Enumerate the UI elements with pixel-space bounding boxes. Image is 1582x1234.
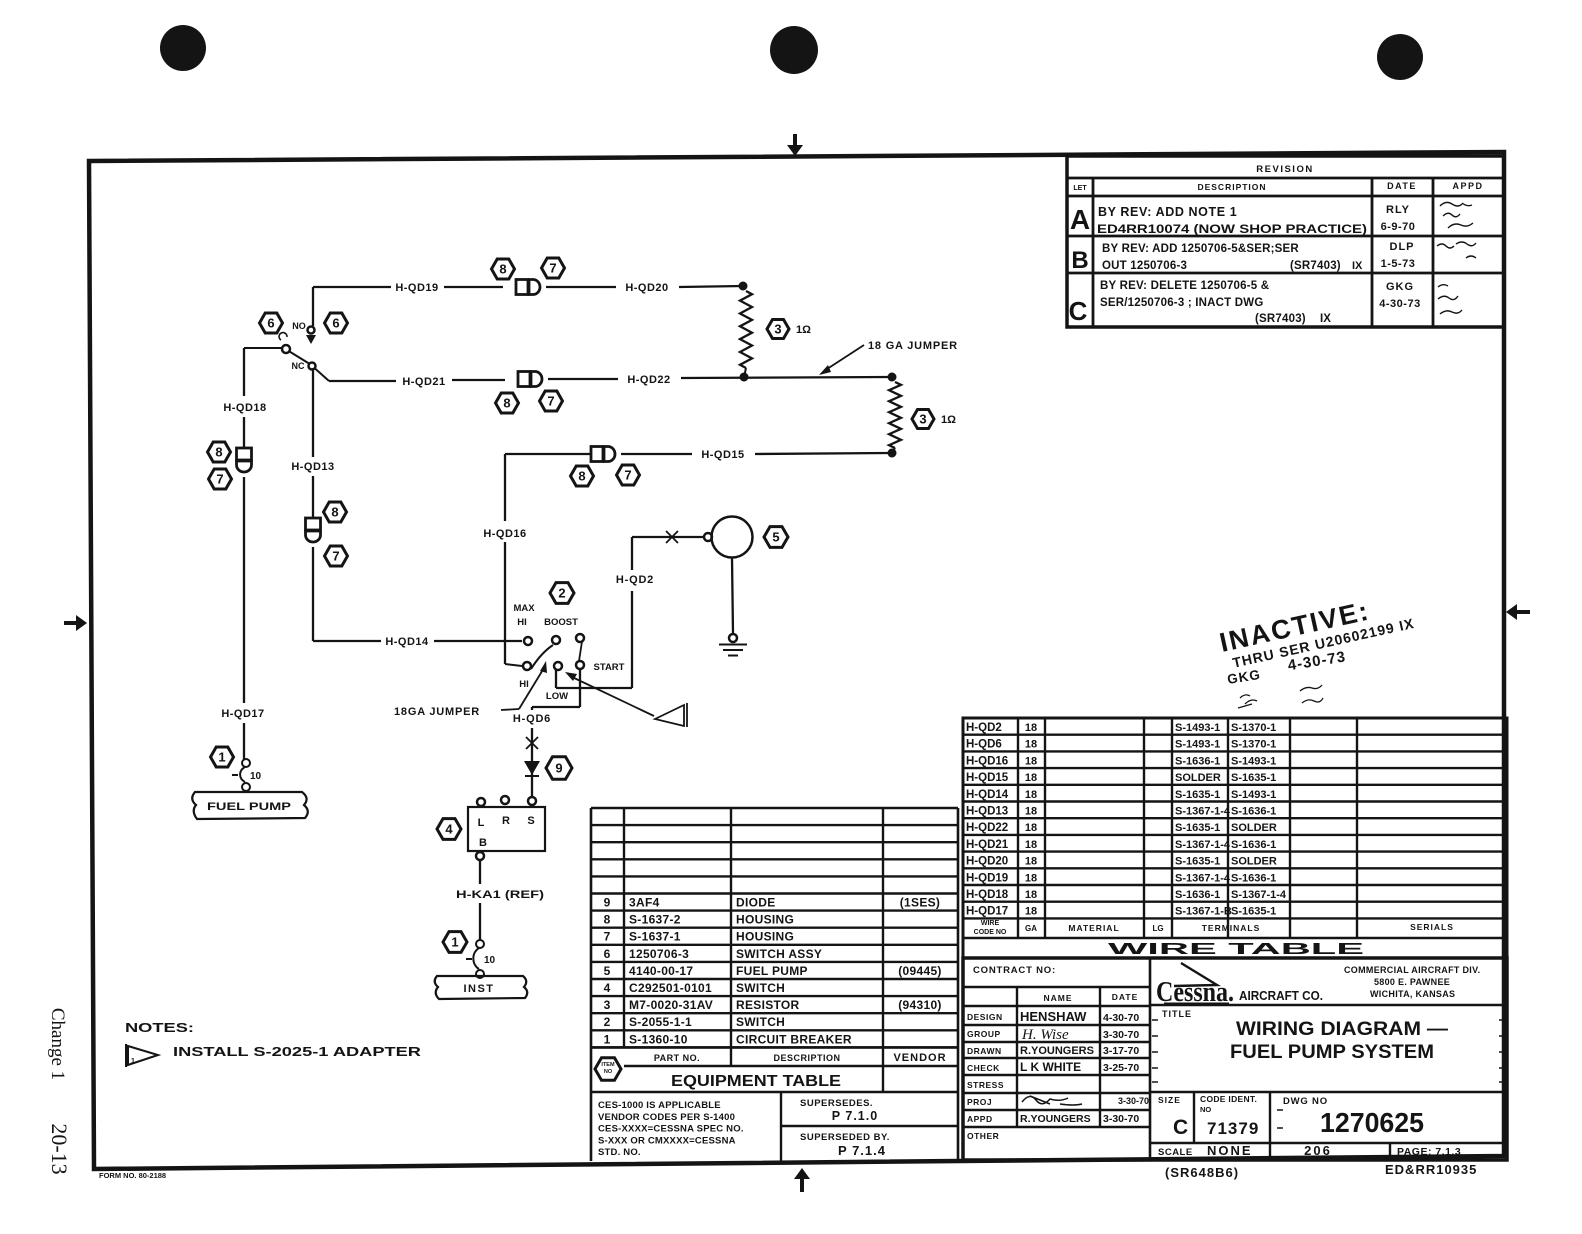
svg-text:STD. NO.: STD. NO.: [598, 1147, 641, 1158]
svg-text:SUPERSEDED BY.: SUPERSEDED BY.: [800, 1132, 890, 1143]
svg-text:1250706-3: 1250706-3: [629, 947, 689, 961]
svg-text:CONTRACT NO:: CONTRACT NO:: [973, 965, 1056, 976]
svg-text:REVISION: REVISION: [1256, 164, 1313, 175]
svg-text:C292501-0101: C292501-0101: [629, 981, 712, 995]
svg-text:BY REV: DELETE 1250706-5 &: BY REV: DELETE 1250706-5 &: [1100, 280, 1269, 292]
svg-text:HI: HI: [517, 617, 527, 628]
svg-text:SOLDER: SOLDER: [1231, 856, 1277, 868]
svg-text:S-1367-1-4: S-1367-1-4: [1175, 806, 1231, 818]
svg-text:6-9-70: 6-9-70: [1381, 221, 1416, 233]
svg-text:18GA JUMPER: 18GA JUMPER: [394, 706, 480, 718]
svg-text:DLP: DLP: [1390, 241, 1415, 253]
svg-text:H-QD22: H-QD22: [966, 822, 1008, 834]
svg-text:A: A: [1070, 204, 1090, 235]
svg-text:H-QD14: H-QD14: [385, 636, 429, 648]
svg-text:206: 206: [1304, 1143, 1332, 1158]
svg-text:SWITCH: SWITCH: [736, 1015, 785, 1029]
svg-text:4-30-73: 4-30-73: [1379, 298, 1420, 310]
svg-text:BY REV: ADD NOTE 1: BY REV: ADD NOTE 1: [1098, 205, 1237, 219]
svg-text:S-1635-1: S-1635-1: [1231, 772, 1276, 784]
svg-text:H-QD2: H-QD2: [616, 574, 654, 586]
svg-text:PAGE: 7.1.3: PAGE: 7.1.3: [1397, 1146, 1461, 1158]
svg-text:LET: LET: [1073, 185, 1087, 192]
svg-text:18: 18: [1025, 789, 1037, 801]
svg-text:NO: NO: [604, 1069, 613, 1075]
svg-text:S-1636-1: S-1636-1: [1175, 889, 1220, 901]
svg-text:HOUSING: HOUSING: [736, 913, 794, 927]
svg-text:SIZE: SIZE: [1158, 1095, 1181, 1105]
svg-text:18: 18: [1025, 906, 1037, 918]
svg-text:H-QD6: H-QD6: [513, 713, 551, 725]
svg-text:18: 18: [1025, 872, 1037, 884]
svg-text:R.YOUNGERS: R.YOUNGERS: [1020, 1113, 1091, 1125]
svg-text:3: 3: [604, 998, 611, 1012]
svg-text:S-1637-2: S-1637-2: [629, 913, 681, 927]
svg-text:Change 1: Change 1: [47, 1008, 68, 1080]
svg-text:7: 7: [604, 930, 611, 944]
svg-text:(SR7403): (SR7403): [1255, 313, 1306, 325]
svg-text:S-1367-1-4: S-1367-1-4: [1231, 889, 1287, 901]
svg-text:H-QD14: H-QD14: [966, 789, 1009, 801]
svg-text:H-QD21: H-QD21: [402, 376, 445, 388]
svg-text:P 7.1.4: P 7.1.4: [838, 1143, 886, 1158]
svg-text:NC: NC: [292, 361, 305, 371]
svg-text:1: 1: [451, 935, 458, 950]
svg-text:18: 18: [1025, 856, 1037, 868]
svg-text:EQUIPMENT TABLE: EQUIPMENT TABLE: [671, 1073, 841, 1090]
svg-text:BY REV: ADD 1250706-5&SER;SER: BY REV: ADD 1250706-5&SER;SER: [1102, 243, 1299, 255]
svg-text:H-QD2: H-QD2: [966, 722, 1002, 734]
svg-text:1: 1: [218, 750, 225, 765]
svg-text:1: 1: [604, 1032, 611, 1046]
svg-text:3-25-70: 3-25-70: [1103, 1062, 1139, 1074]
svg-text:3-17-70: 3-17-70: [1103, 1045, 1139, 1057]
svg-text:S: S: [527, 815, 534, 827]
svg-text:H-QD6: H-QD6: [966, 739, 1002, 751]
svg-text:(1SES): (1SES): [900, 896, 940, 910]
svg-text:H-QD19: H-QD19: [966, 872, 1008, 884]
svg-text:PROJ: PROJ: [967, 1097, 992, 1107]
svg-text:1Ω: 1Ω: [796, 324, 811, 336]
svg-text:S-1367-1-B: S-1367-1-B: [1175, 906, 1232, 918]
svg-text:5: 5: [772, 530, 779, 545]
svg-text:S-1367-1-4: S-1367-1-4: [1175, 839, 1231, 851]
svg-text:6: 6: [604, 947, 611, 961]
svg-text:3-30-70: 3-30-70: [1118, 1096, 1149, 1106]
svg-text:DESCRIPTION: DESCRIPTION: [773, 1053, 840, 1063]
svg-text:DIODE: DIODE: [736, 896, 776, 910]
svg-text:H-QD18: H-QD18: [223, 402, 266, 414]
svg-text:CIRCUIT BREAKER: CIRCUIT BREAKER: [736, 1032, 852, 1046]
svg-text:H-QD17: H-QD17: [966, 906, 1008, 918]
svg-text:4140-00-17: 4140-00-17: [629, 964, 693, 978]
svg-text:H-QD20: H-QD20: [625, 282, 668, 294]
svg-text:C: C: [1173, 1116, 1188, 1139]
svg-text:8: 8: [604, 913, 611, 927]
svg-text:S-1635-1: S-1635-1: [1175, 789, 1220, 801]
svg-text:IX: IX: [1352, 260, 1363, 272]
svg-text:S-1635-1: S-1635-1: [1175, 822, 1220, 834]
svg-text:TITLE: TITLE: [1162, 1009, 1192, 1019]
svg-text:L K WHITE: L K WHITE: [1020, 1060, 1081, 1074]
svg-text:FUEL PUMP: FUEL PUMP: [207, 801, 291, 813]
svg-text:FUEL PUMP SYSTEM: FUEL PUMP SYSTEM: [1230, 1042, 1434, 1063]
svg-text:6: 6: [267, 316, 274, 331]
svg-text:8: 8: [578, 469, 585, 484]
svg-text:SWITCH: SWITCH: [736, 981, 785, 995]
svg-text:HOUSING: HOUSING: [736, 930, 794, 944]
svg-text:S-1360-10: S-1360-10: [629, 1032, 688, 1046]
svg-text:S-2055-1-1: S-2055-1-1: [629, 1015, 692, 1029]
svg-text:7: 7: [624, 468, 631, 483]
svg-text:COMMERCIAL AIRCRAFT DIV.: COMMERCIAL AIRCRAFT DIV.: [1344, 965, 1480, 975]
svg-text:S-1636-1: S-1636-1: [1231, 806, 1276, 818]
svg-text:SER/1250706-3 ; INACT DWG: SER/1250706-3 ; INACT DWG: [1100, 297, 1264, 309]
svg-text:DATE: DATE: [1112, 992, 1139, 1002]
svg-text:INST: INST: [463, 983, 494, 995]
svg-text:SCALE: SCALE: [1158, 1147, 1193, 1158]
svg-text:18: 18: [1025, 889, 1037, 901]
svg-text:(SR648B6): (SR648B6): [1165, 1165, 1239, 1180]
svg-text:H-QD19: H-QD19: [395, 282, 438, 294]
svg-text:DESIGN: DESIGN: [967, 1012, 1003, 1022]
svg-text:OTHER: OTHER: [967, 1131, 999, 1141]
svg-text:7: 7: [547, 394, 554, 409]
svg-text:STRESS: STRESS: [967, 1080, 1004, 1090]
svg-text:S-1635-1: S-1635-1: [1231, 906, 1276, 918]
svg-text:SOLDER: SOLDER: [1231, 822, 1277, 834]
svg-text:18: 18: [1025, 839, 1037, 851]
svg-text:H-QD22: H-QD22: [627, 374, 670, 386]
svg-text:1.: 1.: [131, 1058, 137, 1065]
svg-text:RLY: RLY: [1386, 204, 1410, 216]
svg-text:3-30-70: 3-30-70: [1103, 1113, 1139, 1125]
svg-text:OUT 1250706-3: OUT 1250706-3: [1102, 260, 1187, 272]
svg-text:9: 9: [555, 761, 562, 776]
svg-text:P 7.1.0: P 7.1.0: [832, 1109, 878, 1123]
svg-text:BOOST: BOOST: [544, 617, 578, 628]
svg-text:18 GA JUMPER: 18 GA JUMPER: [868, 340, 958, 352]
svg-text:SWITCH ASSY: SWITCH ASSY: [736, 947, 822, 961]
svg-text:GKG: GKG: [1386, 281, 1414, 293]
svg-text:B: B: [479, 837, 487, 849]
svg-text:IX: IX: [1320, 313, 1331, 325]
svg-text:S-XXX OR CMXXXX=CESSNA: S-XXX OR CMXXXX=CESSNA: [598, 1135, 736, 1146]
svg-text:(94310): (94310): [898, 998, 941, 1012]
svg-text:18: 18: [1025, 806, 1037, 818]
svg-text:DESCRIPTION: DESCRIPTION: [1197, 182, 1266, 192]
svg-text:NOTES:: NOTES:: [125, 1021, 194, 1035]
svg-text:DATE: DATE: [1387, 181, 1417, 191]
svg-text:20-13: 20-13: [47, 1123, 72, 1174]
svg-text:5800 E. PAWNEE: 5800 E. PAWNEE: [1374, 977, 1450, 987]
svg-text:DWG NO: DWG NO: [1283, 1096, 1328, 1107]
svg-text:5: 5: [604, 964, 611, 978]
svg-text:S-1367-1-4: S-1367-1-4: [1175, 872, 1231, 884]
svg-text:HENSHAW: HENSHAW: [1020, 1009, 1087, 1024]
svg-text:H-QD21: H-QD21: [966, 839, 1009, 851]
svg-text:S-1370-1: S-1370-1: [1231, 739, 1276, 751]
svg-text:H-QD15: H-QD15: [701, 449, 744, 461]
svg-text:H-QD15: H-QD15: [966, 772, 1009, 784]
svg-text:3AF4: 3AF4: [629, 896, 660, 910]
svg-text:H-QD16: H-QD16: [483, 528, 526, 540]
svg-text:LG: LG: [1152, 924, 1163, 933]
svg-text:4: 4: [604, 981, 611, 995]
svg-text:APPD: APPD: [1452, 181, 1483, 191]
svg-text:FORM NO. 80-2188: FORM NO. 80-2188: [99, 1171, 166, 1180]
svg-text:(09445): (09445): [898, 964, 941, 978]
svg-text:7: 7: [332, 549, 339, 564]
svg-text:CODE NO: CODE NO: [974, 929, 1007, 936]
svg-text:4: 4: [445, 822, 453, 837]
svg-text:SERIALS: SERIALS: [1410, 922, 1454, 932]
svg-text:SUPERSEDES.: SUPERSEDES.: [800, 1098, 873, 1109]
svg-text:S-1493-1: S-1493-1: [1175, 722, 1220, 734]
svg-text:9: 9: [604, 896, 611, 910]
svg-text:4-30-70: 4-30-70: [1103, 1012, 1139, 1024]
svg-text:3: 3: [774, 322, 781, 337]
svg-text:GA: GA: [1025, 924, 1037, 933]
svg-text:8: 8: [331, 505, 338, 520]
svg-text:APPD: APPD: [967, 1114, 993, 1124]
svg-text:B: B: [1071, 247, 1088, 274]
svg-text:H. Wise: H. Wise: [1021, 1027, 1069, 1043]
svg-text:VENDOR: VENDOR: [893, 1052, 946, 1064]
svg-text:8: 8: [499, 262, 506, 277]
svg-text:18: 18: [1025, 822, 1037, 834]
svg-text:WIRE: WIRE: [981, 920, 1000, 927]
svg-text:1Ω: 1Ω: [941, 414, 956, 426]
svg-text:WIRING DIAGRAM —: WIRING DIAGRAM —: [1236, 1019, 1448, 1040]
svg-text:18: 18: [1025, 772, 1037, 784]
svg-text:CES-1000 IS APPLICABLE: CES-1000 IS APPLICABLE: [598, 1100, 721, 1111]
svg-text:ED4RR10074 (NOW SHOP PRACTICE): ED4RR10074 (NOW SHOP PRACTICE): [1097, 222, 1367, 236]
svg-text:S-1637-1: S-1637-1: [629, 930, 681, 944]
svg-text:S-1636-1: S-1636-1: [1231, 839, 1276, 851]
svg-text:H-QD20: H-QD20: [966, 856, 1008, 868]
svg-text:NO: NO: [1200, 1105, 1211, 1114]
svg-text:2: 2: [604, 1015, 611, 1029]
svg-text:DRAWN: DRAWN: [967, 1046, 1002, 1056]
svg-text:WIRE TABLE: WIRE TABLE: [1108, 941, 1364, 958]
svg-text:10: 10: [484, 955, 496, 966]
svg-text:GROUP: GROUP: [967, 1029, 1001, 1039]
svg-text:SOLDER: SOLDER: [1175, 772, 1221, 784]
svg-text:6: 6: [332, 316, 339, 331]
svg-text:CODE IDENT.: CODE IDENT.: [1200, 1094, 1257, 1104]
svg-text:8: 8: [503, 396, 510, 411]
svg-text:PART NO.: PART NO.: [654, 1053, 700, 1063]
svg-text:LOW: LOW: [546, 691, 568, 702]
svg-text:ED&RR10935: ED&RR10935: [1385, 1162, 1477, 1177]
svg-text:H-QD16: H-QD16: [966, 755, 1008, 767]
svg-text:H-QD13: H-QD13: [291, 461, 334, 473]
svg-text:S-1493-1: S-1493-1: [1175, 739, 1220, 751]
svg-text:S-1493-1: S-1493-1: [1231, 755, 1276, 767]
svg-text:R: R: [502, 815, 510, 827]
svg-text:S-1493-1: S-1493-1: [1231, 789, 1276, 801]
svg-text:2: 2: [558, 586, 565, 601]
svg-text:S-1636-1: S-1636-1: [1175, 755, 1220, 767]
svg-text:S-1635-1: S-1635-1: [1175, 856, 1220, 868]
svg-text:MATERIAL: MATERIAL: [1068, 923, 1119, 933]
svg-text:S-1636-1: S-1636-1: [1231, 872, 1276, 884]
svg-text:18: 18: [1025, 755, 1037, 767]
svg-text:(SR7403): (SR7403): [1290, 260, 1341, 272]
svg-text:S-1370-1: S-1370-1: [1231, 722, 1276, 734]
svg-text:MAX: MAX: [513, 603, 535, 614]
svg-text:R.YOUNGERS: R.YOUNGERS: [1020, 1045, 1094, 1057]
svg-text:CES-XXXX=CESSNA SPEC NO.: CES-XXXX=CESSNA SPEC NO.: [598, 1124, 744, 1135]
svg-text:1270625: 1270625: [1320, 1107, 1424, 1138]
svg-text:WICHITA, KANSAS: WICHITA, KANSAS: [1370, 989, 1455, 999]
svg-text:7: 7: [216, 472, 223, 487]
svg-text:VENDOR CODES PER S-1400: VENDOR CODES PER S-1400: [598, 1112, 735, 1123]
svg-text:HI: HI: [519, 679, 529, 690]
svg-text:AIRCRAFT CO.: AIRCRAFT CO.: [1239, 988, 1323, 1003]
svg-text:NONE: NONE: [1207, 1143, 1253, 1158]
svg-text:FUEL PUMP: FUEL PUMP: [736, 964, 808, 978]
svg-text:7: 7: [549, 261, 556, 276]
svg-text:START: START: [594, 662, 625, 673]
svg-text:INSTALL S-2025-1 ADAPTER: INSTALL S-2025-1 ADAPTER: [173, 1045, 421, 1059]
svg-text:NAME: NAME: [1043, 993, 1072, 1003]
svg-text:71379: 71379: [1207, 1119, 1259, 1138]
svg-text:C: C: [1069, 296, 1088, 326]
svg-text:18: 18: [1025, 739, 1037, 751]
svg-text:H-QD13: H-QD13: [966, 806, 1008, 818]
svg-text:CHECK: CHECK: [967, 1063, 1000, 1073]
svg-text:TERMINALS: TERMINALS: [1202, 923, 1261, 933]
svg-text:L: L: [478, 817, 485, 829]
svg-text:RESISTOR: RESISTOR: [736, 998, 800, 1012]
svg-text:NO: NO: [292, 321, 306, 331]
svg-text:8: 8: [215, 445, 222, 460]
svg-text:H-QD17: H-QD17: [221, 708, 264, 720]
svg-text:1-5-73: 1-5-73: [1381, 258, 1416, 270]
svg-text:10: 10: [250, 771, 262, 782]
svg-text:3-30-70: 3-30-70: [1103, 1029, 1139, 1041]
svg-text:H-QD18: H-QD18: [966, 889, 1009, 901]
svg-text:ITEM: ITEM: [601, 1062, 615, 1068]
svg-text:3: 3: [919, 412, 926, 427]
svg-text:18: 18: [1025, 722, 1037, 734]
svg-text:M7-0020-31AV: M7-0020-31AV: [629, 998, 713, 1012]
svg-text:H-KA1 (REF): H-KA1 (REF): [456, 889, 544, 901]
